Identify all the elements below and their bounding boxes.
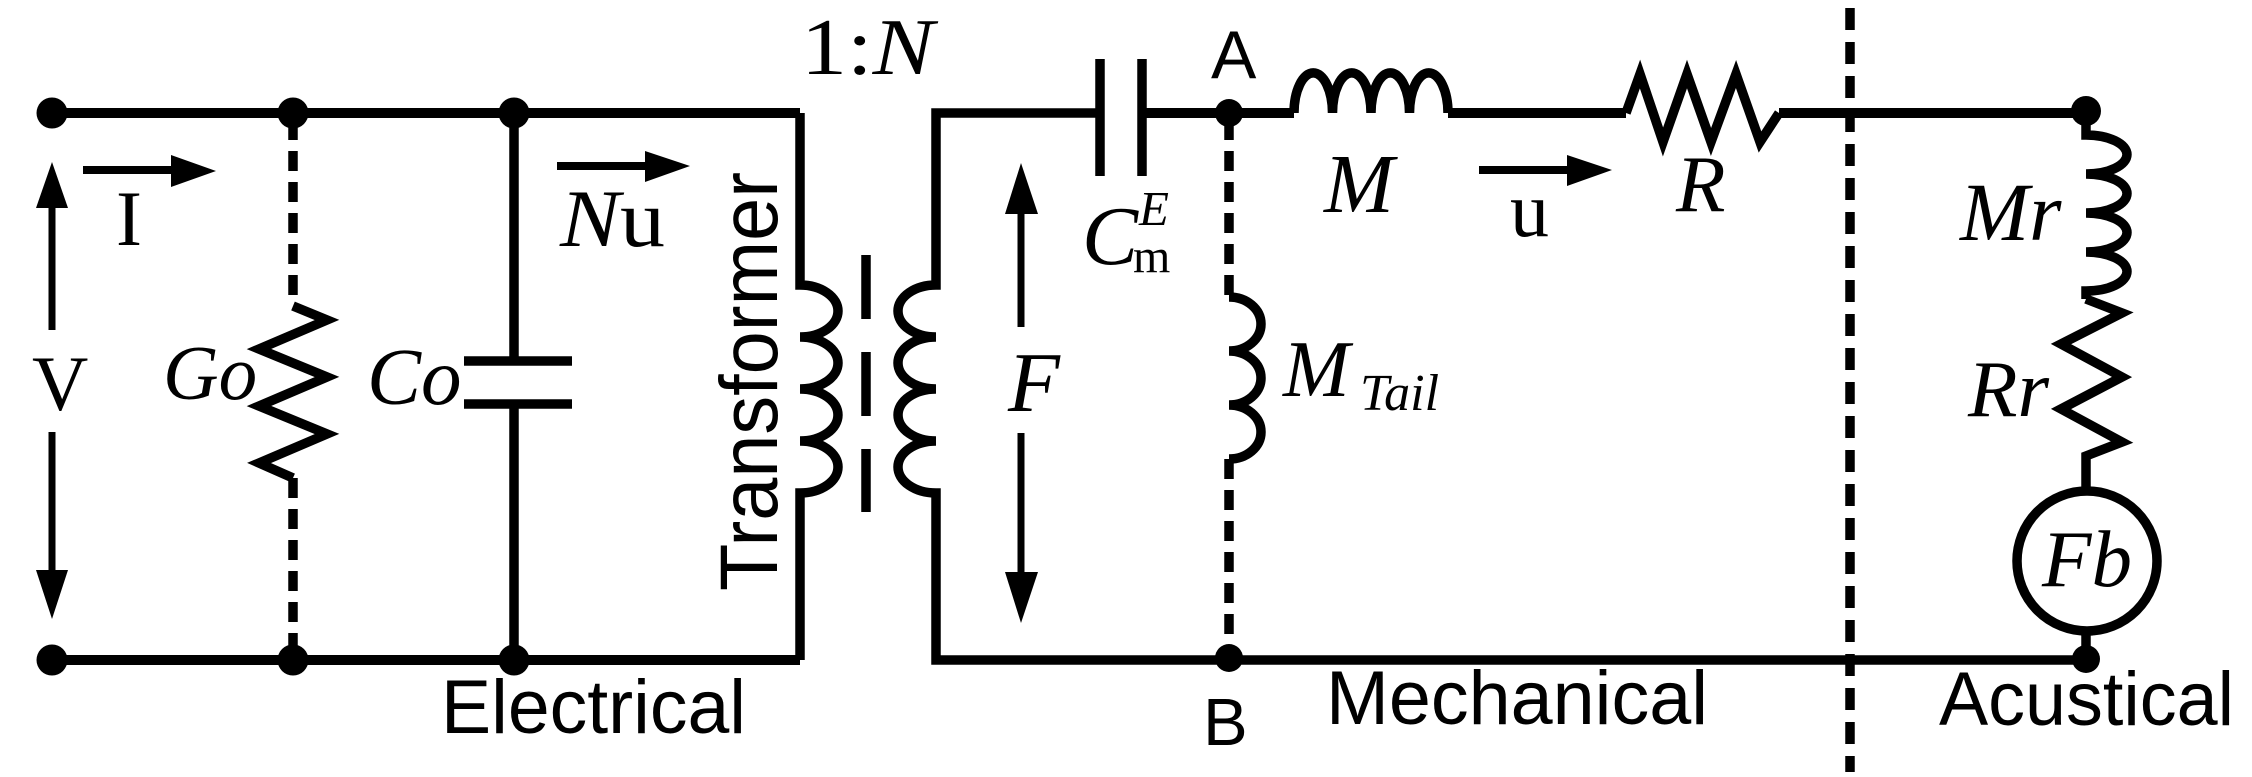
svg-text:M: M (1282, 326, 1354, 414)
svg-text:C: C (1082, 190, 1139, 283)
svg-text:Rr: Rr (1967, 344, 2049, 434)
svg-text:Acustical: Acustical (1939, 657, 2234, 742)
svg-text:Electrical: Electrical (441, 665, 746, 750)
svg-text:Nu: Nu (559, 173, 665, 264)
svg-text:M: M (1323, 138, 1398, 231)
svg-text:B: B (1203, 685, 1248, 760)
svg-text:V: V (32, 340, 88, 427)
svg-text:u: u (1510, 166, 1549, 253)
svg-text:m: m (1133, 230, 1170, 283)
svg-text:Transformer: Transformer (704, 172, 795, 591)
svg-text:I: I (116, 175, 142, 262)
svg-text:F: F (1007, 336, 1061, 430)
svg-text:E: E (1138, 181, 1169, 236)
svg-text:Co: Co (367, 332, 462, 422)
svg-text:Mechanical: Mechanical (1326, 656, 1708, 741)
svg-text:A: A (1211, 17, 1257, 93)
svg-text:Fb: Fb (2041, 514, 2132, 604)
svg-text:Tail: Tail (1360, 365, 1439, 422)
svg-text:Go: Go (163, 330, 257, 416)
svg-text:R: R (1675, 139, 1725, 229)
svg-text:1:N: 1:N (801, 4, 939, 92)
svg-text:Mr: Mr (1959, 166, 2062, 258)
